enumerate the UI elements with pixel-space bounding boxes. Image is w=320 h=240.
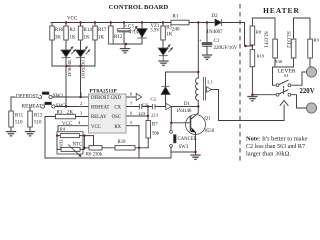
svg-text:6: 6 <box>130 111 133 116</box>
svg-text:510: 510 <box>15 121 23 126</box>
svg-text:TEM: TEM <box>59 139 64 148</box>
svg-text:R14: R14 <box>84 28 93 33</box>
svg-text:REHEAT: REHEAT <box>67 60 72 77</box>
svg-text:2K: 2K <box>67 111 74 116</box>
svg-text:R4: R4 <box>60 126 66 131</box>
svg-text:SW1: SW1 <box>53 94 65 99</box>
svg-text:R8: R8 <box>256 29 262 34</box>
svg-text:R30: R30 <box>275 59 283 64</box>
svg-text:R1: R1 <box>173 14 179 19</box>
svg-text:1N4148: 1N4148 <box>176 109 192 114</box>
svg-text:VCC: VCC <box>67 17 78 22</box>
svg-text:Note: It's better to make: Note: It's better to make <box>246 136 308 143</box>
svg-text:R16: R16 <box>55 28 64 33</box>
svg-text:RELAY: RELAY <box>91 115 107 120</box>
svg-text:8550: 8550 <box>205 129 215 134</box>
svg-text:R19: R19 <box>257 54 265 59</box>
svg-text:SLOT2: SLOT2 <box>285 31 291 48</box>
svg-text:DFROST: DFROST <box>91 96 109 101</box>
svg-text:R6 230k: R6 230k <box>86 152 103 157</box>
svg-text:OSC: OSC <box>112 115 121 120</box>
svg-text:HEATER: HEATER <box>263 6 300 15</box>
svg-text:56k: 56k <box>152 132 160 137</box>
svg-text:DEFROST: DEFROST <box>16 95 39 100</box>
svg-text:VCC: VCC <box>91 125 101 130</box>
svg-text:1K: 1K <box>84 36 91 41</box>
svg-text:1K: 1K <box>166 33 173 38</box>
svg-text:223: 223 <box>151 112 159 117</box>
svg-text:D1: D1 <box>184 102 190 107</box>
svg-text:223: 223 <box>138 111 146 116</box>
svg-text:R11: R11 <box>15 114 24 119</box>
svg-text:C1: C1 <box>214 39 220 44</box>
svg-text:+: + <box>124 24 127 29</box>
svg-text:3.9V: 3.9V <box>150 28 160 33</box>
svg-text:D2: D2 <box>212 14 219 19</box>
svg-text:R18: R18 <box>118 140 127 145</box>
svg-text:R13: R13 <box>34 114 43 119</box>
svg-text:C2 less than 563 and R7: C2 less than 563 and R7 <box>246 143 305 150</box>
svg-text:R3: R3 <box>57 111 63 116</box>
svg-text:1N4007: 1N4007 <box>207 30 224 35</box>
svg-text:C4: C4 <box>142 102 148 107</box>
svg-text:RX: RX <box>114 125 121 130</box>
svg-text:R17: R17 <box>98 28 107 33</box>
svg-text:Q1: Q1 <box>205 117 211 122</box>
svg-text:3: 3 <box>80 111 83 116</box>
svg-text:220UF/16V: 220UF/16V <box>214 46 238 51</box>
svg-text:S1: S1 <box>284 73 290 78</box>
svg-text:3K: 3K <box>55 36 62 41</box>
svg-text:SW2: SW2 <box>56 104 68 109</box>
svg-text:2: 2 <box>80 101 83 106</box>
svg-text:SW3: SW3 <box>179 145 189 150</box>
svg-text:CX: CX <box>114 106 121 111</box>
svg-text:7: 7 <box>130 101 133 106</box>
svg-text:CONTROL BOARD: CONTROL BOARD <box>109 4 169 11</box>
svg-text:8: 8 <box>130 92 133 97</box>
svg-text:R2: R2 <box>70 28 76 33</box>
svg-text:1K: 1K <box>98 36 105 41</box>
svg-text:47UF: 47UF <box>129 29 140 34</box>
svg-text:C2: C2 <box>151 96 157 101</box>
svg-text:R12: R12 <box>114 35 123 40</box>
svg-text:R9: R9 <box>314 38 320 43</box>
svg-text:PT8A2511P: PT8A2511P <box>90 89 118 95</box>
svg-text:larger than 30kΩ.: larger than 30kΩ. <box>246 151 291 158</box>
svg-text:CANCEL: CANCEL <box>178 137 197 142</box>
svg-text:REHEAT: REHEAT <box>91 106 109 111</box>
svg-text:GND: GND <box>111 96 122 101</box>
svg-text:DEFROST: DEFROST <box>81 60 86 79</box>
svg-text:240: 240 <box>172 28 180 33</box>
svg-text:1K: 1K <box>70 36 77 41</box>
svg-text:510: 510 <box>34 121 42 126</box>
svg-text:REHEAT: REHEAT <box>22 104 43 109</box>
svg-text:+: + <box>199 39 202 44</box>
svg-text:4: 4 <box>78 120 81 125</box>
svg-text:1: 1 <box>80 92 83 97</box>
svg-text:220V: 220V <box>300 88 315 95</box>
svg-text:SLOT1: SLOT1 <box>263 31 269 48</box>
svg-text:L1: L1 <box>207 79 213 84</box>
svg-text:5: 5 <box>130 120 133 125</box>
svg-text:NTC: NTC <box>73 142 83 147</box>
svg-text:R7: R7 <box>152 123 158 128</box>
